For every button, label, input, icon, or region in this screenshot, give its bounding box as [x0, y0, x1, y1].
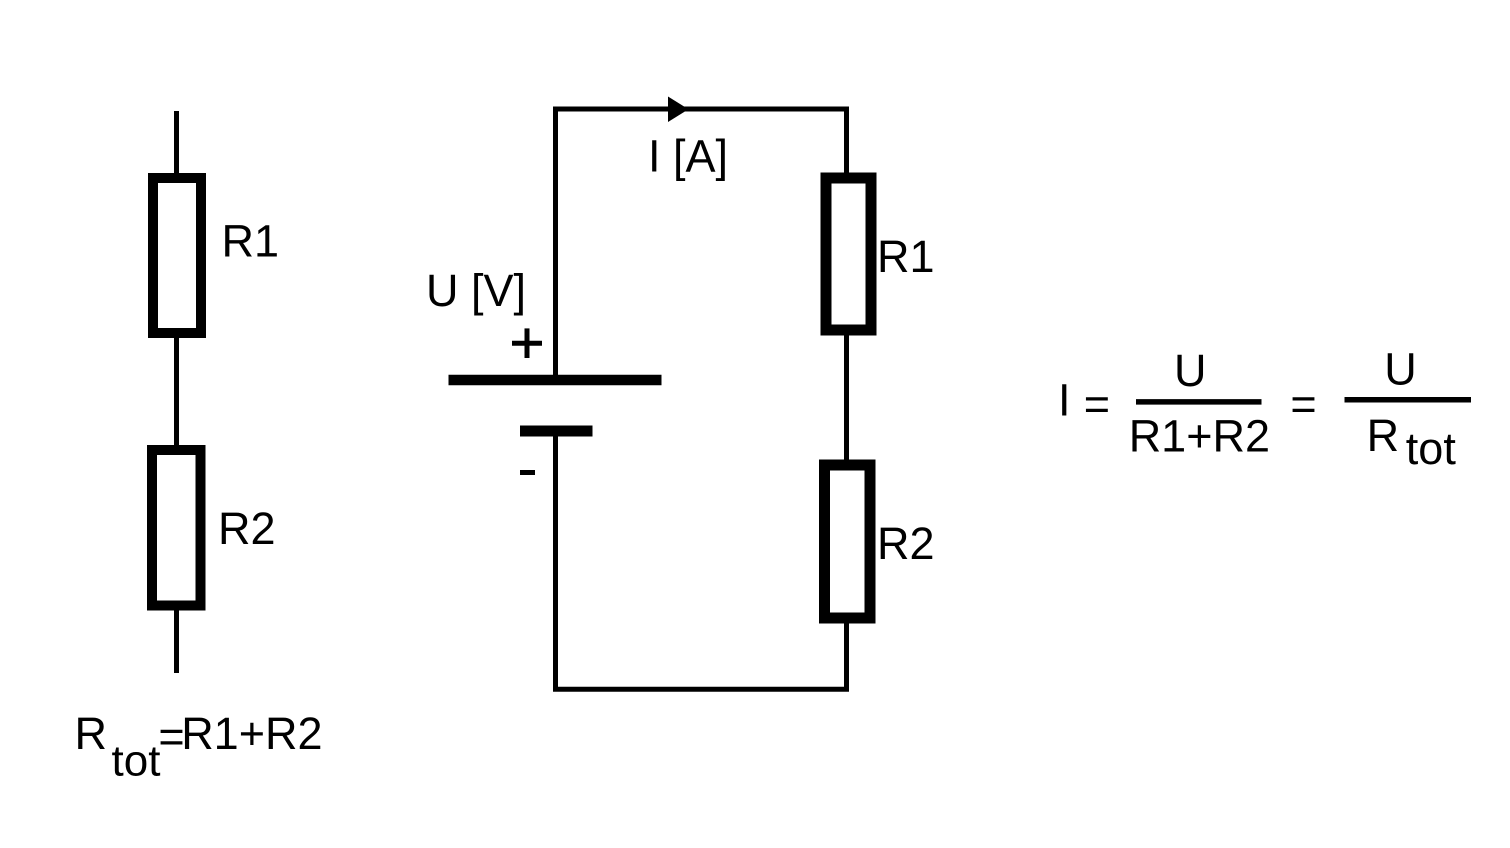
formula fraction bar 2: [1345, 397, 1472, 403]
wire between R1 and R2 (circuit loop): [844, 330, 849, 465]
svg-text:R2: R2: [218, 503, 276, 554]
battery plus sign: [512, 328, 542, 358]
svg-text:R1+R2: R1+R2: [181, 708, 322, 759]
svg-text:I: I: [1058, 375, 1071, 426]
svg-text:I [A]: I [A]: [648, 131, 728, 182]
wire between R1 and R2 (series chain): [174, 333, 179, 450]
svg-text:U: U: [1174, 345, 1207, 396]
resistor R2 (circuit loop): [825, 465, 871, 618]
svg-text:R2: R2: [877, 518, 935, 569]
svg-text:=: =: [1084, 379, 1110, 430]
formula Rtot=R1+R2: [75, 708, 323, 786]
battery negative plate: [520, 426, 593, 437]
resistor R1 (circuit loop): [826, 178, 871, 330]
svg-text:R: R: [1367, 410, 1400, 461]
wire top lead of series chain: [174, 111, 179, 178]
svg-text:R: R: [75, 708, 108, 759]
svg-text:R1: R1: [222, 216, 280, 267]
resistor R2 (series chain): [152, 450, 201, 606]
formula denominator Rtot: [1367, 410, 1457, 474]
resistor R1 (series chain): [153, 178, 201, 333]
wire from battery positive up to top rail: [553, 107, 558, 376]
wire from battery negative down to bottom rail: [553, 431, 558, 692]
svg-text:R1: R1: [877, 231, 935, 282]
wire right rail bottom segment: [844, 618, 849, 692]
wire top rail of circuit loop: [553, 107, 849, 112]
svg-text:U [V]: U [V]: [426, 265, 526, 316]
wire bottom rail of circuit loop: [553, 687, 849, 692]
battery minus sign: [520, 470, 535, 475]
wire right rail top segment: [844, 107, 849, 179]
svg-text:tot: tot: [1406, 423, 1457, 474]
svg-text:=: =: [1290, 379, 1316, 430]
wire bottom lead of series chain: [174, 605, 179, 673]
svg-text:tot: tot: [112, 737, 161, 786]
svg-text:U: U: [1384, 343, 1417, 394]
svg-text:R1+R2: R1+R2: [1129, 411, 1270, 462]
battery positive plate: [449, 375, 662, 386]
formula fraction bar 1: [1136, 399, 1262, 405]
current direction arrowhead: [668, 97, 689, 123]
